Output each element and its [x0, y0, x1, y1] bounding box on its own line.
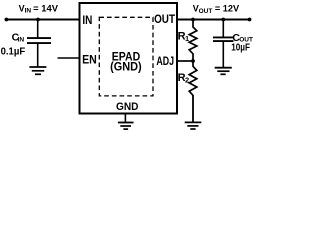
svg-text:= 14V: = 14V	[33, 2, 59, 13]
wire EN stub	[58, 57, 81, 59]
ground CIN	[29, 67, 46, 74]
junction dot CIN tap	[36, 18, 40, 22]
svg-text:IN: IN	[18, 36, 25, 43]
svg-text:0.1µF: 0.1µF	[1, 46, 26, 57]
ground R2	[185, 122, 202, 129]
wire OUT to VOUT	[177, 19, 250, 21]
svg-text:2: 2	[185, 76, 189, 85]
node VIN dot	[5, 18, 9, 22]
junction dot ADJ/R1/R2	[191, 59, 195, 63]
wire GND pin stub	[124, 114, 126, 123]
svg-text:IN: IN	[82, 13, 92, 27]
junction dot COUT tap	[221, 18, 225, 22]
svg-text:1: 1	[185, 34, 189, 43]
wire CIN top	[37, 20, 39, 39]
capacitor C2 COUT plates	[213, 36, 234, 38]
svg-text:= 12V: = 12V	[215, 3, 240, 14]
svg-text:OUT: OUT	[199, 8, 213, 15]
wire ADJ	[177, 60, 193, 62]
resistor R1	[189, 20, 197, 62]
svg-text:GND: GND	[116, 101, 139, 113]
wire R2 to ground	[192, 95, 194, 122]
EPAD dashed outline	[99, 17, 153, 96]
svg-text:OUT: OUT	[154, 12, 176, 26]
svg-text:(GND): (GND)	[110, 62, 142, 74]
regulator IC U1 body	[80, 3, 178, 114]
wire VIN to IN pin	[6, 19, 80, 21]
svg-text:10µF: 10µF	[231, 42, 250, 53]
node VOUT dot	[248, 18, 252, 22]
resistor R2	[189, 61, 197, 95]
wire COUT top	[222, 20, 224, 38]
capacitor C1 CIN plates	[27, 37, 51, 39]
ground IC GND	[118, 123, 134, 130]
svg-text:IN: IN	[25, 8, 32, 15]
svg-text:ADJ: ADJ	[156, 56, 174, 68]
wire CIN bottom	[37, 44, 39, 67]
wire COUT bottom	[222, 42, 224, 68]
svg-text:EN: EN	[82, 53, 97, 67]
junction dot R1 tap	[191, 18, 195, 22]
ground COUT	[215, 68, 232, 75]
